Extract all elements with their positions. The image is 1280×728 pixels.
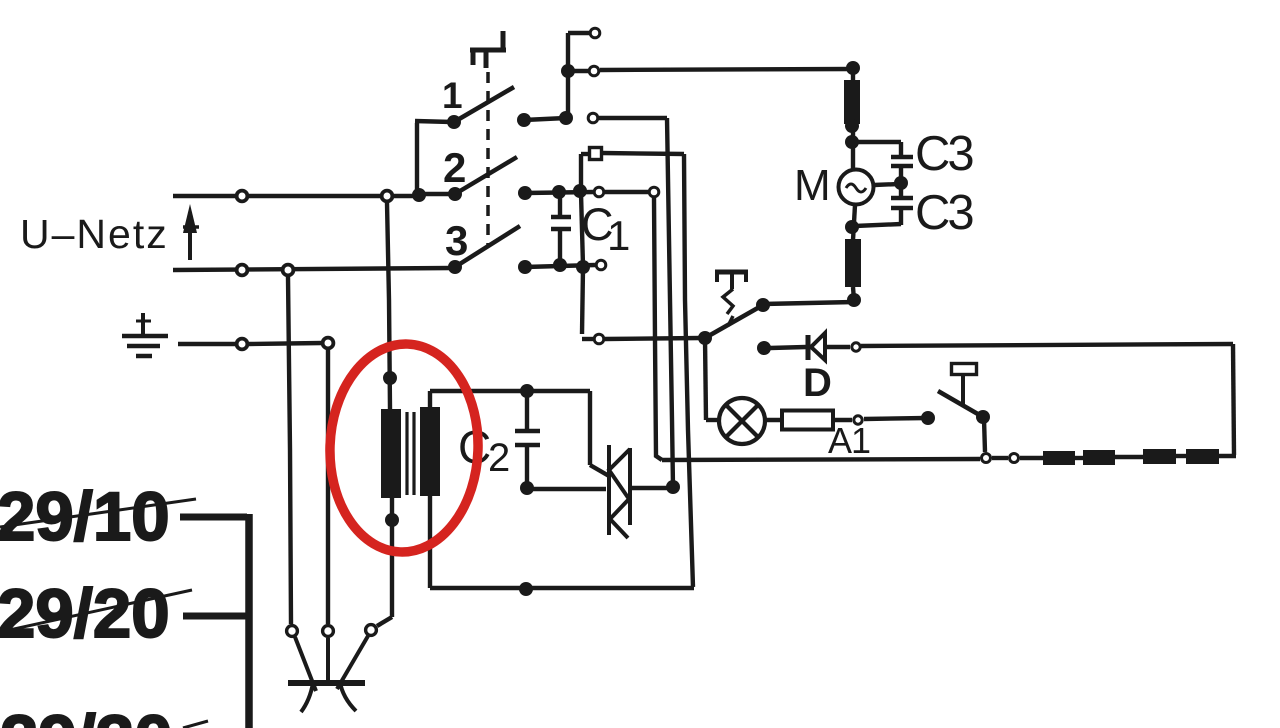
svg-text:D: D xyxy=(803,361,832,405)
svg-text:A1: A1 xyxy=(828,420,870,461)
svg-text:2: 2 xyxy=(488,436,510,480)
svg-text:29/10: 29/10 xyxy=(0,478,170,555)
svg-text:29/20: 29/20 xyxy=(0,575,170,652)
svg-text:1: 1 xyxy=(607,212,630,259)
svg-text:U–Netz: U–Netz xyxy=(20,211,169,257)
svg-text:C3: C3 xyxy=(915,186,973,240)
svg-text:2: 2 xyxy=(443,144,466,191)
svg-text:1: 1 xyxy=(442,75,463,116)
svg-text:3: 3 xyxy=(445,217,468,264)
svg-text:29/30: 29/30 xyxy=(0,701,173,728)
svg-text:M: M xyxy=(794,161,831,210)
svg-text:C3: C3 xyxy=(915,127,973,181)
